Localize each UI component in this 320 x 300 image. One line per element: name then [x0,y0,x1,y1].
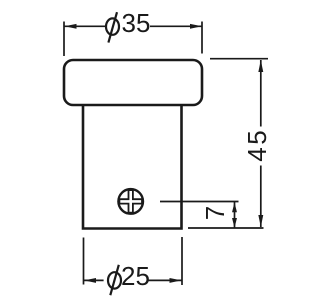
svg-text:35: 35 [122,8,151,38]
extension line 45 top [210,58,268,60]
arrow 7 bottom [232,218,237,228]
dimension line 45 upper segment [260,60,262,127]
extension line 45 bottom [188,227,264,229]
svg-text:25: 25 [121,261,150,291]
dimension line 45 lower segment [260,166,262,228]
leader line screw center [160,201,239,203]
dimension line 7 [234,202,236,228]
svg-text:45: 45 [242,128,272,162]
dimension line phi25 left segment [84,279,104,281]
body (cylinder outline) [83,105,182,229]
extension line phi25 left [83,238,85,285]
arrow phi25 right [170,278,182,283]
label phi25 diameter symbol [108,272,121,288]
svg-text:7: 7 [200,206,230,220]
screw head circle [118,189,143,214]
arrow 7 top [232,202,237,212]
dimension line phi35 right segment [150,25,202,27]
label phi35 diameter symbol [106,18,119,34]
arrow 45 top [258,60,263,72]
arrow phi35 right [190,24,202,29]
extension line phi35 right [201,22,203,54]
dimension line phi25 right segment [148,279,182,281]
extension line phi35 left [63,22,65,57]
arrow phi35 left [65,24,77,29]
dimension line phi35 left segment [65,25,106,27]
extension line phi25 right [181,237,183,285]
arrow phi25 left [84,278,96,283]
phillips cross [119,190,142,213]
flange (top cap outline) [64,60,202,105]
arrow 45 bottom [258,215,263,227]
